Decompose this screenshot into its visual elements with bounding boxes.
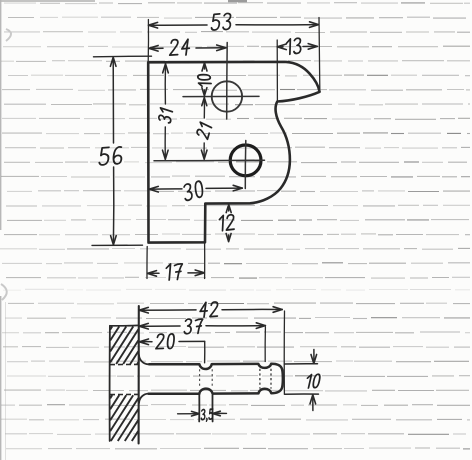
extension line left for 17 <box>146 247 148 279</box>
dimension 53 text <box>211 13 231 30</box>
dimension 13 text <box>286 38 300 55</box>
shaft outline with grooves and rounded head <box>149 364 283 394</box>
extension line right of 42 / head face <box>283 311 285 394</box>
extension line top for 10 <box>285 363 318 365</box>
hidden hole line lower (dashed) <box>110 393 139 395</box>
dimension 17 line with arrows <box>147 272 159 274</box>
dimension 10 line with arrows <box>204 63 206 69</box>
dimension 37 text <box>184 319 203 334</box>
groove1 hidden root lines (dotted) <box>199 369 201 388</box>
dimension 3,5 text <box>201 409 213 421</box>
dimension 42 line with arrows <box>139 309 196 311</box>
dimension 56 text <box>99 146 122 165</box>
lower hole vertical centerline <box>244 141 247 189</box>
wall right face / extension line <box>138 306 140 444</box>
dimension 12 text <box>219 214 235 231</box>
scan edge artifacts <box>6 29 11 41</box>
dimension 12 line with arrows <box>228 205 230 212</box>
hidden hole line upper (dashed) <box>110 363 139 365</box>
dimension 30 line with arrows <box>149 188 182 190</box>
dimension 24 text <box>170 39 190 55</box>
bottom extension line for 56 <box>92 244 143 246</box>
dimension 10 arrows outside <box>313 350 315 364</box>
wall left edge <box>109 326 111 441</box>
wall top edge <box>110 324 139 326</box>
shaft bottom edge left of groove1 <box>149 392 200 395</box>
extension lines for 3,5 below groove1 <box>198 394 200 422</box>
dimension 53 line with arrows <box>149 24 208 26</box>
lower hole circle (bold) <box>230 145 261 176</box>
fillet arc top (wall to shaft) <box>139 355 149 365</box>
dimension 21 text (rotated) <box>196 122 211 139</box>
dimension 37 line with arrows <box>139 325 180 327</box>
dimension 24 line with arrows <box>149 47 163 49</box>
part outline (top view bracket) <box>148 62 319 243</box>
upper hole horizontal centerline <box>183 95 259 97</box>
dimension 10 text (rotated) <box>198 75 212 87</box>
dimension 13 line with arrows <box>277 46 283 48</box>
dimension 20 text <box>156 334 175 349</box>
dimension 21 line with arrows <box>203 98 205 118</box>
fillet arc bottom (wall to shaft) <box>139 394 149 404</box>
upper hole vertical centerline <box>226 43 229 120</box>
extension line left of 13 <box>276 40 278 100</box>
lower hole horizontal centerline <box>154 159 265 162</box>
extension line right of 53 at nose tip <box>318 18 321 90</box>
extension line right for 17 <box>204 244 206 279</box>
dimension 30 text <box>184 180 204 201</box>
extension line for 37 down to groove2 <box>264 327 266 362</box>
dimension 42 text <box>200 302 219 317</box>
dimension 3,5 line with inward arrows <box>178 413 200 415</box>
dimension 10 text (bottom view) <box>305 374 320 388</box>
dimension 20 line with arrow and leader to groove1 <box>139 341 152 343</box>
wall hatching upper <box>110 327 138 365</box>
groove2 hidden root lines (dotted) <box>259 369 261 389</box>
extension line left (53/24) <box>147 20 149 63</box>
upper hole circle <box>212 81 242 111</box>
dimension 31 line with arrows <box>164 64 166 104</box>
dimension 31 text (rotated) <box>158 108 172 124</box>
dimension 17 text <box>165 263 182 280</box>
groove1 bottom notch (arc up into shaft) <box>199 389 212 394</box>
top extension line for 56 <box>94 55 152 58</box>
wall hatching lower <box>110 395 138 441</box>
dimension 56 line with arrows <box>112 57 114 143</box>
extension line bottom for 10 <box>285 393 319 395</box>
